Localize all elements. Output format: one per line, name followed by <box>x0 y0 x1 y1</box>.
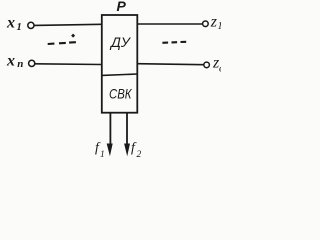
svg-text:e: e <box>219 64 221 75</box>
terminal circle x1 <box>28 22 34 28</box>
right ellipsis dashes <box>162 42 168 44</box>
svg-text:P: P <box>117 0 127 14</box>
divider between DU and SVK <box>102 74 138 75</box>
arrow f2 shaft <box>126 113 128 146</box>
block outer rectangle <box>102 15 138 113</box>
svg-text:СВК: СВК <box>109 86 132 102</box>
dot above left dashes <box>71 34 75 38</box>
arrow f1 shaft <box>109 113 111 146</box>
wire xn to block <box>35 63 102 66</box>
svg-text:2: 2 <box>137 150 142 160</box>
arrow f1 head <box>107 144 113 157</box>
svg-text:x: x <box>6 15 15 32</box>
svg-text:1: 1 <box>17 22 22 33</box>
terminal circle xn <box>29 60 35 66</box>
svg-text:ДУ: ДУ <box>109 34 132 50</box>
svg-text:x: x <box>6 53 15 70</box>
svg-text:1: 1 <box>100 150 105 160</box>
terminal circle z1 <box>203 21 209 27</box>
svg-text:п: п <box>17 58 23 70</box>
arrow f2 head <box>124 144 130 157</box>
wire block to zl <box>137 63 204 66</box>
terminal circle zl <box>204 62 210 68</box>
svg-text:1: 1 <box>218 21 222 32</box>
left ellipsis dashes <box>48 43 55 46</box>
wire block to z1 <box>138 23 203 25</box>
wire x1 to block <box>34 24 101 25</box>
